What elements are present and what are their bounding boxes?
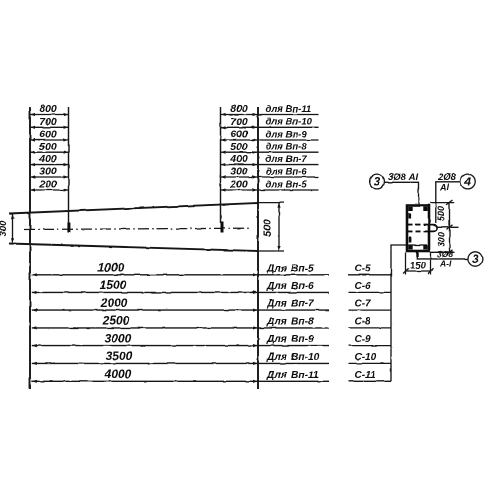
svg-text:3500: 3500 [106, 349, 133, 363]
C column row С-8 [349, 317, 392, 328]
left stack dimension line 200 [30, 179, 69, 192]
svg-text:300: 300 [39, 166, 57, 178]
svg-text:500: 500 [262, 219, 274, 237]
right stack dimension line 700 для Вп-10 [221, 116, 319, 129]
svg-text:Для Вп-8: Для Вп-8 [266, 317, 314, 328]
rebar dot bottom-right [423, 245, 427, 249]
beam bottom edge [9, 244, 258, 252]
section dim extension bottom [430, 251, 455, 253]
svg-text:3000: 3000 [105, 331, 132, 345]
C column row С-5 [349, 263, 392, 274]
svg-text:для Вп-7: для Вп-7 [266, 154, 308, 165]
svg-text:Для Вп-6: Для Вп-6 [266, 281, 314, 292]
svg-text:3: 3 [472, 254, 479, 266]
left stack dimension line 300 [30, 166, 69, 179]
svg-text:700: 700 [230, 116, 248, 128]
svg-text:2000: 2000 [100, 296, 128, 310]
svg-text:для Вп-11: для Вп-11 [266, 104, 312, 115]
svg-text:для Вп-8: для Вп-8 [266, 142, 308, 153]
leader from circle 3 to section top [384, 182, 418, 204]
callout circle 4 [460, 174, 475, 189]
beam centerline (dash-dot) [24, 228, 252, 229]
loop dashed line upper [408, 224, 430, 226]
C column row С-9 [349, 334, 392, 345]
lifting point tick right [221, 222, 224, 233]
svg-text:2Ø8: 2Ø8 [437, 172, 457, 183]
svg-text:2500: 2500 [102, 314, 130, 328]
section dim extension middle [438, 226, 459, 228]
leader from bottom rebar to circle 3 [417, 252, 468, 259]
left stack dimension line 600 [30, 129, 69, 142]
svg-text:Для Вп-11: Для Вп-11 [266, 370, 319, 381]
left stack dimension line 700 [30, 116, 69, 129]
bottom dimension row 3000 Для Вп-9 [32, 331, 329, 347]
section outline (stirrup rectangle) [407, 206, 429, 252]
bottom rebar tick [416, 252, 418, 258]
rebar mark mid-left upper [409, 214, 412, 219]
C column row С-10 [349, 352, 392, 363]
svg-text:4000: 4000 [104, 367, 132, 381]
leader polyline from section bottom-left to C-rows [391, 245, 407, 381]
rebar dot bottom-left [408, 245, 412, 249]
svg-text:200: 200 [38, 179, 57, 191]
bottom dimension row 2000 Для Вп-7 [32, 296, 329, 312]
svg-text:С-5: С-5 [355, 263, 372, 274]
inner line near bottom [409, 244, 427, 246]
svg-text:600: 600 [230, 129, 248, 141]
svg-text:Для Вп-9: Для Вп-9 [266, 334, 314, 345]
left stack inner extension line (x=68.5 down to centerline) [68, 107, 70, 224]
right stack extension line (x=220.5 down to centerline) [220, 107, 222, 223]
svg-text:500: 500 [39, 141, 57, 153]
bottom dimension row 4000 Для Вп-11 [32, 367, 329, 383]
left extension line (long vertical at x=30) [29, 107, 31, 389]
svg-text:С-10: С-10 [355, 352, 377, 363]
callout circle 3 (bottom) [468, 252, 482, 266]
svg-text:400: 400 [38, 153, 57, 165]
beam top edge [9, 203, 258, 214]
svg-text:300: 300 [0, 220, 9, 237]
svg-text:500: 500 [230, 141, 248, 153]
loop dashed line lower [408, 230, 430, 232]
bottom dimension row 1500 Для Вп-6 [32, 278, 329, 294]
rebar mark mid-left lower [409, 237, 412, 243]
svg-text:для Вп-10: для Вп-10 [266, 117, 313, 128]
svg-text:для Вп-5: для Вп-5 [266, 179, 308, 190]
C column row С-6 [349, 281, 392, 292]
svg-text:для Вп-6: для Вп-6 [266, 166, 308, 177]
svg-text:для Вп-9: для Вп-9 [266, 129, 308, 140]
svg-text:150: 150 [410, 261, 427, 272]
bottom dimension row 1000 Для Вп-5 [32, 261, 329, 277]
right stack dimension line 200 для Вп-5 [221, 179, 319, 192]
svg-text:400: 400 [229, 153, 248, 165]
svg-text:Для Вп-10: Для Вп-10 [266, 352, 320, 363]
svg-text:А-I: А-I [439, 259, 452, 269]
dim tick middle [447, 225, 453, 230]
right extension line (long vertical at x=258 to bottom rows) [257, 107, 259, 389]
callout circle 3 (top) [370, 174, 385, 189]
svg-text:3Ø8: 3Ø8 [437, 249, 453, 259]
left stack dimension line 800 [30, 103, 69, 116]
section dim extension top [430, 202, 455, 204]
right stack dimension line 400 для Вп-7 [221, 153, 319, 166]
svg-text:1000: 1000 [98, 261, 125, 275]
C column row С-7 [349, 299, 392, 310]
bottom dimension row 2500 Для Вп-8 [32, 314, 329, 330]
dimension 300 beam left height [0, 214, 14, 244]
right stack dimension line 300 для Вп-6 [221, 166, 319, 179]
svg-text:700: 700 [39, 116, 57, 128]
dim 150 extension right [430, 253, 432, 275]
right stack dimension line 500 для Вп-8 [221, 141, 319, 154]
leader from circle 4 to lifting loop [436, 182, 461, 223]
svg-text:С-8: С-8 [355, 317, 372, 328]
lifting point tick left [67, 223, 70, 233]
dim tick top [447, 200, 453, 205]
svg-text:4: 4 [464, 177, 472, 189]
svg-text:300: 300 [230, 166, 248, 178]
svg-text:С-7: С-7 [355, 299, 372, 310]
svg-text:Для Вп-7: Для Вп-7 [266, 299, 315, 310]
svg-text:АI: АI [439, 183, 449, 193]
lifting loop hook at right [430, 225, 438, 232]
svg-text:С-9: С-9 [355, 334, 372, 345]
rebar dot top-left [408, 207, 412, 211]
svg-text:3: 3 [374, 177, 381, 189]
svg-text:800: 800 [39, 103, 57, 115]
svg-text:1500: 1500 [100, 278, 127, 292]
bottom dimension row 3500 Для Вп-10 [32, 349, 329, 365]
svg-text:С-6: С-6 [355, 281, 372, 292]
svg-text:С-11: С-11 [355, 370, 376, 381]
dim 150 extension left [405, 253, 407, 275]
svg-text:800: 800 [230, 103, 248, 115]
svg-text:300: 300 [437, 232, 447, 247]
svg-text:500: 500 [436, 206, 446, 221]
svg-text:600: 600 [39, 129, 57, 141]
section dim line vertical [449, 203, 451, 253]
svg-text:200: 200 [229, 179, 248, 191]
right stack dimension line 800 для Вп-11 [221, 103, 319, 116]
left stack dimension line 400 [30, 153, 69, 166]
dimension 500 beam right height [262, 203, 281, 251]
left stack dimension line 500 [30, 141, 69, 154]
svg-text:Для Вп-5: Для Вп-5 [266, 263, 314, 274]
dimension 500 beam right height extension lines [258, 202, 284, 204]
C column row С-11 [349, 370, 392, 381]
rebar dot top-right [423, 207, 427, 211]
dim 150 line [403, 261, 434, 274]
svg-text:3Ø8 АI: 3Ø8 АI [388, 172, 418, 183]
right stack dimension line 600 для Вп-9 [221, 129, 319, 142]
dim tick bottom [447, 250, 453, 255]
